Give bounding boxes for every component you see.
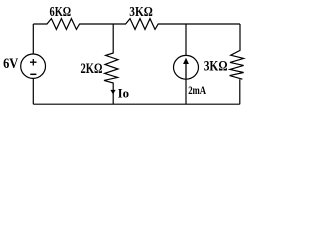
svg-text:Io: Io (118, 87, 129, 101)
svg-text:6V: 6V (3, 56, 19, 72)
svg-text:2mA: 2mA (188, 84, 206, 97)
svg-text:6KΩ: 6KΩ (50, 5, 72, 20)
svg-text:3KΩ: 3KΩ (204, 59, 228, 75)
svg-text:3KΩ: 3KΩ (129, 4, 153, 19)
svg-text:2KΩ: 2KΩ (81, 61, 103, 77)
